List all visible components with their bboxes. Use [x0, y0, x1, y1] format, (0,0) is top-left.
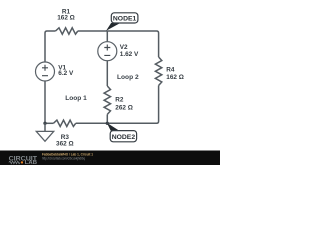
svg-text:NODE2: NODE2	[112, 134, 136, 141]
svg-text:LAB: LAB	[25, 160, 38, 165]
svg-text:362 Ω: 362 Ω	[56, 141, 74, 148]
svg-text:R4: R4	[166, 66, 175, 73]
resistor R2	[104, 86, 110, 114]
svg-text:162 Ω: 162 Ω	[166, 74, 184, 81]
wire: bottom horizontal left segment (ground junction to R3)	[45, 122, 53, 124]
svg-text:162 Ω: 162 Ω	[57, 15, 75, 22]
wire: left vertical bottom (V1 down to ground junction)	[44, 81, 46, 123]
svg-text:Loop 1: Loop 1	[65, 95, 87, 102]
node NODE2 callout wedge	[107, 123, 120, 131]
resistor R4	[155, 57, 161, 86]
wire: middle vertical stub (top wire to V2)	[106, 31, 108, 42]
node NODE2	[110, 131, 136, 142]
footer bar	[0, 151, 220, 166]
svg-text:262 Ω: 262 Ω	[115, 105, 133, 112]
wire: middle vertical (V2 to R2)	[106, 61, 108, 86]
ground	[44, 123, 46, 131]
node NODE1	[111, 13, 138, 23]
footer logo orange dot	[21, 161, 23, 163]
junction dot at ground node	[43, 122, 46, 125]
svg-text:NODE1: NODE1	[113, 16, 137, 23]
voltage source V2	[98, 42, 117, 61]
svg-text:R2: R2	[115, 96, 124, 103]
svg-text:1.62 V: 1.62 V	[120, 51, 139, 58]
svg-text:Loop 2: Loop 2	[117, 74, 139, 81]
node NODE1 callout wedge	[106, 23, 120, 31]
resistor R3	[53, 120, 75, 126]
footer logo resistor zigzag	[9, 161, 20, 164]
voltage source V1	[36, 62, 55, 81]
wire: middle vertical bottom (R2 to bottom wire)	[106, 114, 108, 123]
wire: top horizontal left segment with rounded top-left corner	[45, 31, 56, 62]
svg-text:http://circuitlab.com/c/bcuxkj: http://circuitlab.com/c/bcuxkjhdibq	[42, 156, 85, 160]
wire: top horizontal right segment with rounded top-right corner	[78, 31, 159, 57]
wire: right vertical bottom with rounded bottom-right corner	[76, 86, 159, 124]
resistor R1	[56, 28, 78, 34]
junction dot at NODE2	[106, 122, 109, 125]
svg-text:6.2 V: 6.2 V	[58, 70, 74, 77]
